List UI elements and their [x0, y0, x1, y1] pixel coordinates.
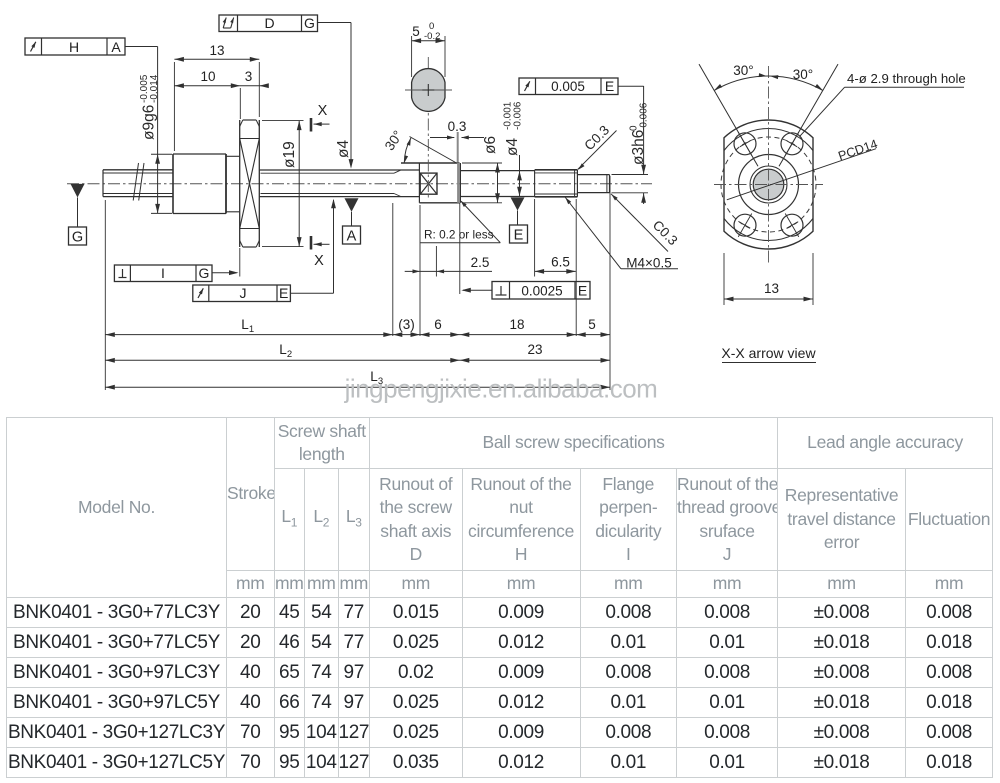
svg-text:6.5: 6.5: [551, 255, 570, 270]
dia 6 dimension: [462, 162, 502, 164]
total runout frame D-G: [219, 15, 318, 32]
svg-text:ø19: ø19: [281, 141, 298, 168]
runout frame J-E: [193, 285, 291, 302]
section cut vertical centerline: [427, 57, 429, 199]
dia-3h6 end stub: [577, 174, 609, 176]
svg-text:23: 23: [527, 342, 542, 357]
runout frame 0.005 E: [519, 78, 618, 95]
svg-text:6: 6: [434, 317, 442, 332]
svg-text:R: 0.2 or less: R: 0.2 or less: [424, 228, 494, 242]
svg-text:H: H: [69, 39, 79, 55]
svg-text:4-ø 2.9 through hole: 4-ø 2.9 through hole: [847, 71, 966, 86]
svg-text:0.0025: 0.0025: [521, 284, 562, 299]
plain dia-4 section: [460, 170, 534, 172]
svg-text:A: A: [347, 229, 357, 245]
svg-text:30°: 30°: [733, 63, 753, 78]
neck between nut body and flange: [226, 155, 240, 157]
svg-text:E: E: [279, 285, 288, 301]
dimension 5 with tolerance: [411, 36, 413, 77]
svg-text:X: X: [314, 253, 324, 269]
svg-text:0.3: 0.3: [448, 119, 467, 134]
dia 4 dimension with tolerance: [519, 155, 521, 196]
svg-text:jingpengjixie.en.alibaba.com: jingpengjixie.en.alibaba.com: [344, 374, 658, 404]
30 degree chamfer note: [410, 137, 457, 164]
label PCD14: [727, 149, 876, 200]
R 0.2 or less note: [461, 201, 500, 243]
dimension 0.3 groove width: [457, 132, 459, 162]
svg-text:M4×0.5: M4×0.5: [626, 256, 671, 271]
datum G symbol: [71, 184, 85, 198]
dia 19 dimension of flange: [262, 120, 304, 122]
svg-text:ø9g6: ø9g6: [141, 105, 158, 140]
leader from 0.005 frame: [618, 85, 644, 87]
svg-text:G: G: [199, 265, 210, 281]
svg-text:E: E: [578, 283, 587, 299]
svg-text:13: 13: [209, 43, 224, 58]
M4 threaded end section: [534, 170, 536, 197]
svg-text:C0.3: C0.3: [581, 122, 612, 153]
dimension 6.5: [534, 199, 536, 277]
nut body cylinder: [172, 154, 174, 214]
dimension 13 nut body plus flange: [173, 62, 175, 151]
leader from J-E frame to thread: [290, 292, 333, 294]
leader from I-G frame to flange face: [212, 272, 237, 274]
cross-section circle 5 -0.2: [412, 69, 445, 112]
ball groove collar (dia 6): [418, 163, 420, 203]
main shaft centerline: [67, 183, 652, 185]
perpendicularity frame 0.0025 E: [492, 282, 590, 300]
svg-text:C0.3: C0.3: [650, 217, 681, 248]
datum A symbol: [345, 198, 359, 212]
leader from H-A frame to dia9g6 dimension: [125, 46, 158, 48]
svg-text:E: E: [605, 78, 614, 94]
break lines on left stub: [133, 163, 138, 201]
X-X view chamfer arcs: [724, 128, 813, 150]
svg-text:E: E: [514, 228, 524, 244]
svg-text:-0.006: -0.006: [639, 102, 650, 131]
X-X view nut pilot circle: [739, 155, 799, 215]
svg-text:A: A: [111, 39, 121, 55]
leader from D-G frame to thread top: [318, 22, 352, 24]
svg-text:ø6: ø6: [482, 136, 499, 154]
svg-text:PCD14: PCD14: [836, 137, 879, 163]
dia 4 label left: [335, 140, 352, 158]
screw thread section right of flange: [259, 169, 419, 171]
X-X view centerlines: [714, 184, 823, 186]
svg-text:-0.2: -0.2: [424, 31, 440, 42]
X-X view center hole with chamfer ring: [750, 166, 787, 203]
svg-text:30°: 30°: [382, 128, 406, 153]
dimension 13 flange width: [723, 253, 725, 305]
leader from 0.0025 frame to groove: [463, 289, 492, 291]
perpendicularity frame I-G: [114, 265, 212, 282]
svg-text:-0.014: -0.014: [149, 74, 160, 103]
svg-text:I: I: [161, 265, 165, 281]
svg-text:5: 5: [588, 317, 596, 332]
svg-text:X-X arrow view: X-X arrow view: [721, 345, 816, 361]
section plane mark X top: [310, 118, 313, 132]
svg-text:3: 3: [245, 69, 253, 84]
datum E symbol: [511, 197, 525, 210]
svg-text:(3): (3): [398, 317, 415, 332]
svg-text:2: 2: [287, 349, 292, 360]
dia 9g6 dimension with tolerance: [151, 153, 172, 155]
svg-text:D: D: [264, 15, 274, 31]
chain dimensions (3) 6 18 5: [104, 200, 106, 390]
svg-text:-0.006: -0.006: [513, 101, 524, 130]
svg-text:2.5: 2.5: [471, 255, 490, 270]
svg-text:G: G: [72, 230, 83, 246]
ball track square section with cross: [420, 173, 437, 194]
X-X view bolt circle PCD14 dashed: [721, 137, 816, 232]
dimension 2.5: [435, 246, 437, 277]
bolt hole center marks: [738, 132, 752, 155]
X-X view bolt holes: [734, 133, 756, 155]
chamfer note C0.3 lower: [611, 194, 668, 252]
dimension line L2 and 23: [105, 359, 610, 361]
svg-text:1: 1: [249, 324, 254, 335]
svg-text:18: 18: [509, 317, 524, 332]
dimension 10 and 3: [239, 88, 241, 119]
30 degree hole angle lines: [699, 64, 758, 166]
svg-text:ø4: ø4: [504, 138, 521, 156]
left screw stub thread profile: [102, 170, 104, 197]
thread note M4x0.5: [565, 197, 621, 269]
svg-text:G: G: [304, 15, 315, 31]
dia 3h6 dimension with tolerance: [612, 174, 649, 176]
30 degree arc with arrows: [714, 76, 823, 91]
svg-text:ø4: ø4: [335, 140, 352, 158]
runout frame H-A top left: [25, 38, 125, 55]
svg-text:5: 5: [412, 24, 420, 39]
svg-text:30°: 30°: [793, 67, 813, 82]
chamfer note C0.3 upper: [578, 131, 617, 170]
dimension line L3: [105, 386, 610, 388]
svg-text:X: X: [318, 103, 328, 119]
flange with cross pattern: [239, 120, 241, 247]
svg-text:0.005: 0.005: [551, 79, 585, 94]
svg-text:ø3h6: ø3h6: [630, 130, 647, 165]
thread relief groove: [457, 163, 460, 203]
X-X view flange outline: [724, 120, 813, 249]
section plane mark X bottom: [310, 236, 313, 250]
svg-text:J: J: [240, 285, 247, 301]
svg-text:10: 10: [200, 69, 215, 84]
svg-text:13: 13: [764, 281, 779, 296]
